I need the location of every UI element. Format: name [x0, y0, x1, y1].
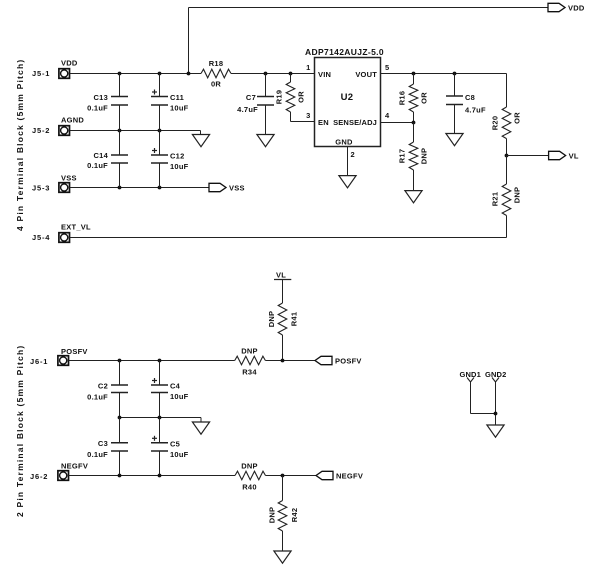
svg-text:VSS: VSS [61, 174, 77, 183]
svg-text:C4: C4 [170, 382, 181, 391]
svg-text:J6-2: J6-2 [30, 472, 48, 481]
svg-text:0R: 0R [211, 80, 221, 89]
wire R40 to NEGFV flag [266, 475, 317, 477]
ground C7 [257, 135, 274, 147]
wire VSS row [70, 187, 210, 189]
net flag GND1 [460, 370, 481, 382]
svg-text:C14: C14 [93, 151, 108, 160]
wire SENSE/ADJ row [381, 122, 414, 124]
svg-text:10uF: 10uF [170, 392, 189, 401]
wire VOUT row [381, 74, 507, 108]
svg-text:R40: R40 [242, 483, 257, 492]
svg-text:4.7uF: 4.7uF [237, 105, 258, 114]
svg-text:VDD: VDD [61, 59, 78, 68]
svg-text:VSS: VSS [229, 184, 245, 193]
svg-text:R21: R21 [491, 192, 500, 207]
capacitor C4 [151, 361, 189, 418]
junction VOUT-R16 [412, 72, 416, 76]
svg-text:EXT_VL: EXT_VL [61, 223, 91, 232]
junction VOUT-C8 [453, 72, 457, 76]
net flag NEGFV [316, 471, 363, 480]
junction mid-C2 [118, 416, 122, 420]
ground GND1/GND2 [487, 425, 504, 437]
svg-text:R41: R41 [290, 312, 299, 327]
svg-text:VL: VL [569, 152, 579, 161]
label 2-pin terminal block [15, 345, 25, 517]
svg-text:VL: VL [276, 271, 286, 280]
net flag POSFV [315, 356, 362, 365]
wire EXT_VL row [70, 237, 507, 239]
junction NEGFV-C5 [158, 474, 162, 478]
power symbol VL bar [274, 271, 291, 280]
resistor R20 [491, 107, 522, 156]
connector J5-2 [32, 116, 84, 136]
svg-text:OR: OR [420, 92, 429, 104]
svg-text:10uF: 10uF [170, 162, 189, 171]
label 4-pin terminal block [15, 59, 25, 231]
wire R18 to VIN [231, 73, 315, 75]
junction VSS-C14 [118, 186, 122, 190]
svg-text:J5-3: J5-3 [32, 184, 50, 193]
resistor R41 [267, 280, 299, 361]
svg-text:AGND: AGND [61, 116, 84, 125]
wire U2 GND pin 2 [347, 147, 349, 176]
wire R34 to POSFV flag [265, 360, 315, 362]
wire GND2 down [495, 382, 497, 425]
junction NEGFV node [281, 474, 285, 478]
wire GND1 down [471, 382, 496, 414]
ground mid [192, 422, 209, 434]
connector J6-1 [30, 347, 88, 366]
junction VIN-R19 [289, 72, 293, 76]
svg-text:R18: R18 [209, 59, 224, 68]
svg-text:DNP: DNP [267, 311, 276, 328]
svg-text:4: 4 [385, 111, 390, 120]
svg-text:J6-1: J6-1 [30, 357, 48, 366]
svg-text:R17: R17 [398, 149, 407, 164]
junction VDD-rail [187, 72, 191, 76]
power flag VSS [209, 183, 245, 192]
svg-text:3: 3 [306, 111, 310, 120]
svg-text:C11: C11 [170, 93, 184, 102]
op-amp U2 (regulator ADP7142AUJZ-5.0) [305, 47, 390, 159]
svg-text:4 Pin Terminal Block (5mm Pitc: 4 Pin Terminal Block (5mm Pitch) [15, 59, 25, 231]
resistor R16 [398, 74, 429, 123]
svg-text:R20: R20 [491, 116, 500, 131]
resistor R42 [268, 476, 300, 552]
svg-text:0.1uF: 0.1uF [87, 161, 108, 170]
capacitor C5 [151, 418, 189, 476]
wire POSFV row [69, 360, 235, 362]
capacitor C14 [87, 131, 128, 188]
svg-text:DNP: DNP [241, 347, 258, 356]
svg-text:1: 1 [306, 63, 310, 72]
svg-text:0.1uF: 0.1uF [87, 393, 108, 402]
svg-text:10uF: 10uF [170, 450, 189, 459]
svg-text:R34: R34 [242, 368, 257, 377]
svg-text:C3: C3 [98, 439, 108, 448]
svg-text:VDD: VDD [568, 4, 585, 13]
capacitor C11 [151, 74, 189, 131]
svg-text:J5-2: J5-2 [32, 126, 50, 135]
capacitor C7 [237, 74, 274, 135]
resistor R21 [491, 156, 522, 238]
svg-text:NEGFV: NEGFV [61, 462, 88, 471]
svg-text:2 Pin Terminal Block (5mm Pitc: 2 Pin Terminal Block (5mm Pitch) [15, 345, 25, 517]
capacitor C2 [87, 361, 128, 418]
ground R17 [405, 191, 422, 203]
junction VSS-C12 [158, 186, 162, 190]
junction VL node [505, 154, 509, 158]
resistor R18 [201, 59, 231, 89]
junction NEGFV-C3 [118, 474, 122, 478]
svg-text:OR: OR [513, 112, 522, 124]
svg-text:DNP: DNP [241, 462, 258, 471]
junction POSFV node [281, 359, 285, 363]
svg-text:R19: R19 [275, 90, 284, 105]
svg-text:U2: U2 [341, 92, 354, 103]
ground AGND [192, 135, 209, 147]
svg-text:C7: C7 [246, 93, 256, 102]
ground R42 [274, 551, 291, 563]
svg-text:0.1uF: 0.1uF [87, 450, 108, 459]
svg-text:C2: C2 [98, 382, 108, 391]
wire VDD row [70, 73, 202, 75]
junction mid-C4 [158, 416, 162, 420]
svg-text:J5-4: J5-4 [32, 233, 50, 242]
wire mid ground row [120, 418, 202, 423]
svg-text:GND2: GND2 [485, 370, 506, 379]
svg-text:2: 2 [351, 150, 355, 159]
svg-text:10uF: 10uF [170, 104, 189, 113]
resistor R40 [235, 462, 266, 492]
junction AGND-C13 [118, 129, 122, 133]
junction POSFV-C2 [118, 359, 122, 363]
net flag GND2 [485, 370, 506, 382]
wire NEGFV row [69, 475, 236, 477]
svg-text:GND1: GND1 [460, 370, 481, 379]
svg-text:SENSE/ADJ: SENSE/ADJ [333, 118, 377, 127]
svg-text:R42: R42 [290, 508, 299, 523]
wire VL node to flag [507, 155, 549, 157]
wire AGND row [70, 131, 201, 135]
connector J5-4 [32, 223, 91, 243]
junction VDD-C11 [158, 72, 162, 76]
svg-text:0.1uF: 0.1uF [87, 104, 108, 113]
svg-text:VOUT: VOUT [355, 70, 377, 79]
svg-text:EN: EN [318, 118, 329, 127]
svg-text:DNP: DNP [420, 148, 429, 165]
svg-text:5: 5 [385, 63, 389, 72]
svg-text:POSFV: POSFV [335, 357, 362, 366]
capacitor C13 [87, 74, 128, 131]
junction SENSE-R17 [412, 121, 416, 125]
svg-text:NEGFV: NEGFV [336, 472, 363, 481]
power flag VL [549, 151, 579, 160]
junction GND1-GND2 [494, 412, 498, 416]
connector J5-3 [32, 174, 77, 193]
resistor R17 [398, 123, 429, 191]
svg-text:R16: R16 [398, 91, 407, 106]
power flag VDD [548, 3, 585, 12]
svg-text:C12: C12 [170, 152, 185, 161]
svg-text:J5-1: J5-1 [32, 69, 50, 78]
svg-text:GND: GND [335, 138, 353, 147]
junction AGND-C11 [158, 129, 162, 133]
junction VIN-C7 [264, 72, 268, 76]
svg-text:VIN: VIN [318, 70, 331, 79]
connector J5-1 [32, 59, 78, 79]
ground U2 [339, 176, 356, 188]
svg-text:C8: C8 [465, 93, 475, 102]
svg-text:C13: C13 [93, 93, 108, 102]
svg-text:DNP: DNP [513, 187, 522, 204]
svg-text:ADP7142AUJZ-5.0: ADP7142AUJZ-5.0 [305, 47, 384, 57]
wire VDD top rail [189, 8, 549, 74]
svg-text:C5: C5 [170, 440, 180, 449]
resistor R34 [235, 347, 266, 377]
svg-text:OR: OR [297, 91, 306, 103]
capacitor C3 [87, 418, 128, 476]
capacitor C12 [151, 131, 189, 188]
svg-text:DNP: DNP [268, 507, 277, 524]
svg-text:4.7uF: 4.7uF [465, 106, 486, 115]
capacitor C8 [446, 74, 486, 134]
svg-text:POSFV: POSFV [61, 347, 88, 356]
junction VDD-C13 [118, 72, 122, 76]
resistor R19 [275, 74, 306, 122]
junction POSFV-C4 [158, 359, 162, 363]
ground C8 [446, 134, 463, 146]
connector J6-2 [30, 462, 88, 482]
wire R19 to EN [291, 121, 315, 123]
